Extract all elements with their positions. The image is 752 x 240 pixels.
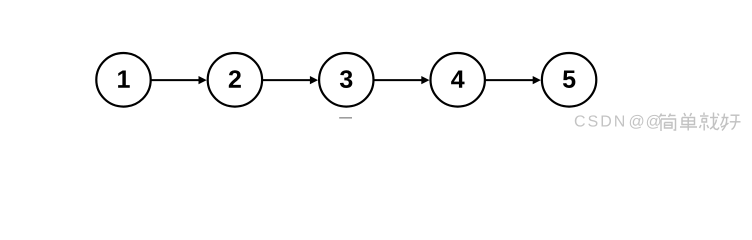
watermark hanzi jian (简): [660, 114, 676, 132]
wire arrow 3-4: [374, 76, 429, 84]
watermark hanzi dan (单): [680, 113, 697, 131]
node 1: [96, 53, 150, 107]
wire arrow 2-3: [263, 76, 318, 84]
node 2: [208, 53, 262, 107]
cursor dash under node 3: [339, 117, 352, 119]
watermark hanzi hao (好): [721, 114, 741, 131]
node 4: [431, 53, 485, 107]
wire arrow 4-5: [486, 76, 541, 84]
watermark hanzi jiu (就): [700, 113, 720, 131]
wire arrow 1-2: [152, 76, 207, 84]
node 5: [542, 53, 596, 107]
watermark CSDN text: [575, 115, 624, 126]
node 3: [319, 53, 373, 107]
